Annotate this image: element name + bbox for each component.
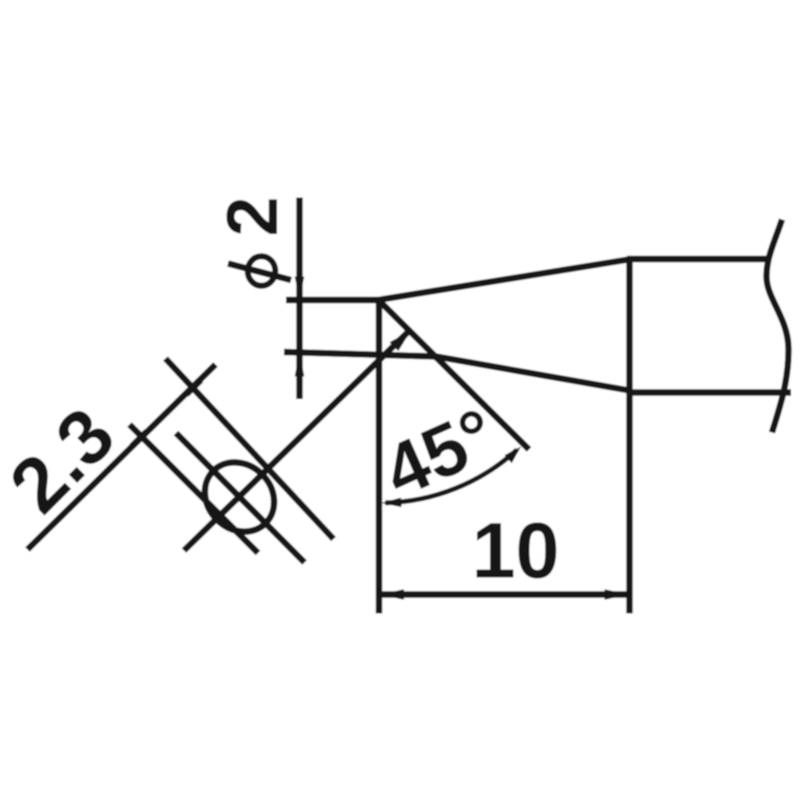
arc upper arrowhead: [505, 447, 522, 464]
shank top edge: [627, 256, 770, 262]
bevel face edge and 45-degree extension line: [379, 300, 530, 450]
45-degree dimension arc: [385, 450, 517, 503]
10-dimension horizontal dimension line: [379, 591, 630, 597]
2.3 dimension line diagonal: [28, 365, 216, 550]
2.3 upper extension line E2: [166, 359, 334, 540]
text phi symbol drawn: tilted stem: [228, 264, 291, 281]
2.3 tick blob upper: [186, 377, 204, 397]
dimension phi2 vertical dimension line: [296, 198, 302, 400]
bevel face ellipse: [191, 448, 289, 546]
phi2 top extension line / tip top front edge: [286, 297, 380, 303]
leader arrowhead on bevel face: [390, 331, 412, 352]
ellipse centre line: [176, 433, 305, 563]
leader line from ellipse to bevel face: [184, 331, 410, 551]
10-dimension left extension line from tip point: [376, 300, 382, 614]
2.3 lower extension line E1: [130, 425, 259, 554]
10 right arrowhead: [605, 589, 630, 600]
break line S-curve at right: [766, 220, 788, 433]
cone bottom edge with front flat: [284, 352, 630, 391]
phi2 lower arrowhead pointing up: [295, 352, 305, 377]
shank left vertical edge plus 10-dimension right extension line: [626, 257, 632, 614]
svg-text:10: 10: [472, 506, 560, 595]
10 left arrowhead: [380, 589, 405, 600]
shank bottom edge: [627, 389, 791, 395]
text phi symbol drawn: circle: [248, 256, 276, 286]
cone top edge of tip: [378, 260, 629, 301]
phi2 upper arrowhead pointing down: [295, 277, 305, 300]
2.3 tick blob lower: [130, 429, 148, 449]
arc lower arrowhead: [381, 498, 401, 508]
svg-text:2: 2: [213, 196, 293, 236]
